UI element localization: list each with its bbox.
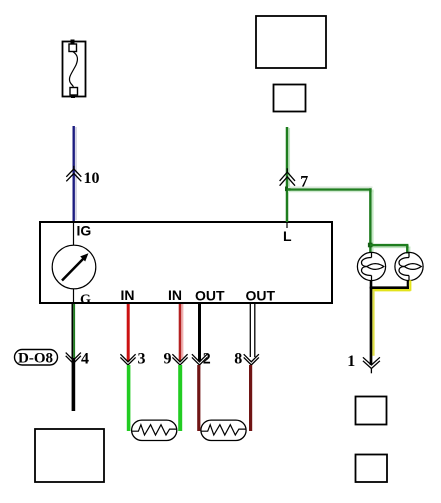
gauge G1 (circle with needle) [52,245,96,289]
svg-text:IN: IN [121,287,135,303]
wire vertical down to lamp 2 [407,245,409,254]
wire 3 green lower [127,365,131,431]
svg-text:3: 3 [138,351,146,368]
svg-text:IN: IN [168,287,182,303]
wire 3 red upper [127,304,130,362]
svg-text:IG: IG [77,223,92,239]
wire 9 green lower [178,365,182,431]
arrow down pin 3 [120,354,135,369]
arrow down pin 8 [244,354,259,369]
bottom-right square 1 [356,397,387,425]
arrow up pin 10 [66,166,81,182]
wire 8 maroon lower [249,365,252,431]
connector label D-O8 [15,350,58,367]
svg-text:L: L [283,228,292,244]
bottom-right square 2 [356,455,388,483]
wire 8 white upper [250,304,255,357]
wire 9 red/pink upper [180,304,183,362]
wire lamp2 bottom stub black [407,281,409,288]
wire lamp1 bottom stub black [370,281,373,288]
arrow down pin 4 [66,353,81,368]
resistor R2 [201,420,246,440]
svg-text:8: 8 [234,351,242,368]
top-right small square [274,85,306,112]
wire 4 upper green stripe [73,304,75,358]
svg-text:2: 2 [203,351,211,368]
svg-text:1: 1 [347,353,355,370]
wire horizontal green to lamp 2 [370,245,410,247]
pin stub G [73,289,75,303]
wire bottom horizontal yellow [372,289,410,291]
wire 2 black upper [198,304,201,362]
svg-text:D-O8: D-O8 [18,351,53,367]
svg-text:4: 4 [81,351,89,368]
lamp L2 [395,252,423,280]
wire 4 black lower [72,358,76,411]
lamp L1 [357,252,385,280]
wire bottom horizontal black [370,286,409,289]
fuse F1 [63,40,86,99]
wire 7 vertical (green with light stripe) [287,127,289,222]
arrow down pin 9 [172,354,187,369]
svg-text:G: G [80,293,91,308]
top-right box [256,16,326,68]
junction at L branch [285,187,291,192]
svg-text:OUT: OUT [195,288,225,304]
junction at lamp branch [368,243,373,248]
resistor R1 [132,420,177,440]
wire 1 vertical black [370,287,373,365]
wire vertical down to lamp 1 [370,188,372,253]
svg-text:10: 10 [84,170,100,187]
wire horizontal green to lamps [287,187,374,191]
pin stub IG [73,222,75,245]
pin stub L [286,222,288,228]
wire lamp2 yellow stub [409,280,411,291]
wire 1 vertical yellow [372,290,374,356]
svg-text:9: 9 [164,351,172,368]
wire 2 maroon lower [197,365,200,431]
arrow up pin 7 [280,168,295,185]
wire 10 (blue with light stripe) [74,126,76,221]
arrow down pin 2 [192,354,207,369]
svg-text:OUT: OUT [246,288,276,304]
arrow down pin 1 [363,357,380,373]
combination meter box [40,222,332,303]
wire 4 upper black part [71,304,73,358]
bottom-left box [35,429,104,482]
